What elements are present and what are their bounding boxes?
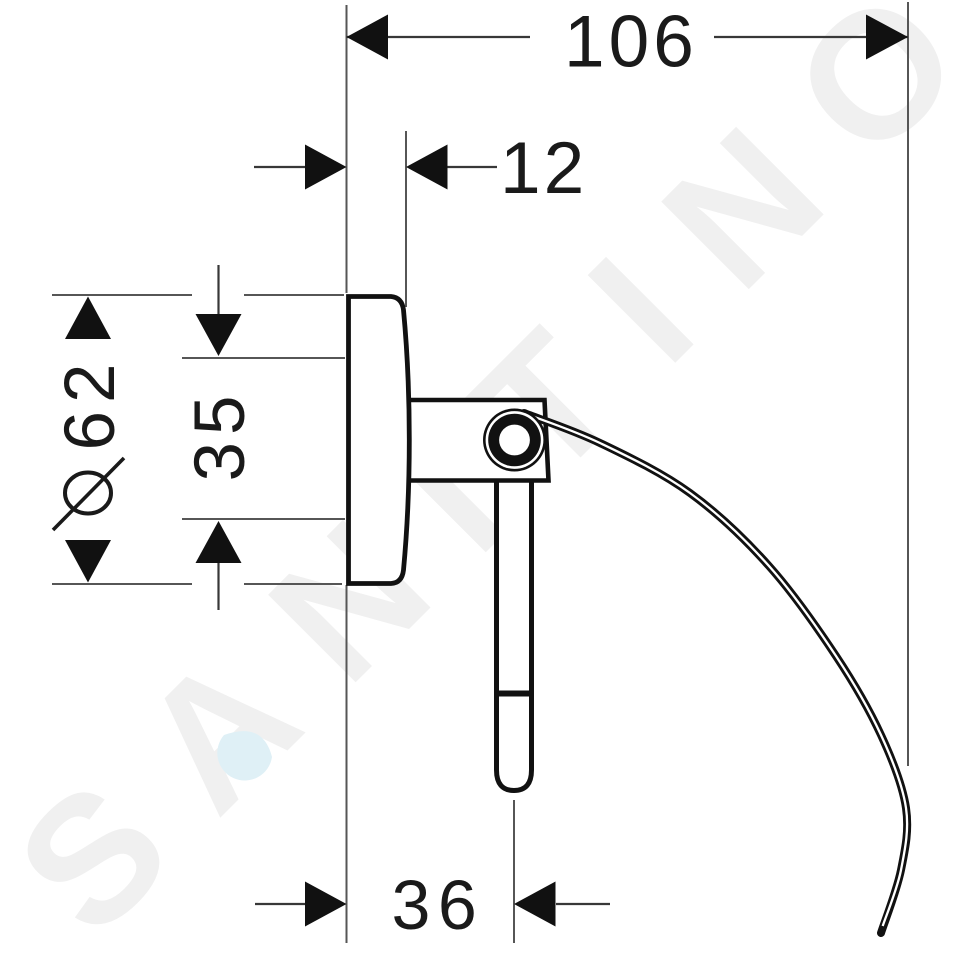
arrow 62 up [65, 297, 111, 340]
pivot hole [499, 425, 530, 456]
pivot white ring [486, 411, 544, 469]
svg-text:35: 35 [181, 389, 260, 482]
extension line 12 right x=406 [405, 131, 407, 307]
pivot donut [488, 414, 541, 467]
diameter symbol [53, 458, 124, 530]
arrow 12 left [305, 145, 347, 190]
svg-text:36: 36 [392, 866, 485, 944]
spring wire [524, 413, 907, 933]
roll holder rod [497, 478, 532, 791]
extension line left (wall plane x=346) top [346, 5, 348, 293]
arrow 35 down [196, 314, 242, 356]
extension line left bottom continuation [346, 585, 348, 943]
dimension 12 line [254, 166, 306, 168]
watermark drop [217, 731, 272, 780]
bracket arm [404, 400, 549, 481]
extension line right x=908 [907, 2, 909, 766]
extension line dia62 bottom y=584 [52, 583, 192, 585]
arrow 35 up [196, 521, 242, 563]
dimension 36 line [255, 903, 306, 905]
svg-text:62: 62 [51, 356, 130, 451]
arrow 62 down [65, 540, 111, 583]
svg-text:106: 106 [564, 2, 698, 83]
extension line 35 bottom y=519 [182, 518, 345, 520]
extension line rod center x=514 [513, 800, 515, 943]
rod joint line [494, 691, 534, 697]
pivot outer ring [483, 409, 546, 472]
arrow 106 left [347, 15, 389, 60]
arrow 106 right [866, 15, 908, 60]
svg-text:12: 12 [500, 128, 587, 209]
arrow 12 right [406, 145, 448, 190]
extension line dia62 top y=295 [52, 294, 192, 296]
arrow 36 left [305, 882, 347, 927]
dimension 35 leader lines [217, 265, 219, 316]
spring wire white stripe [524, 413, 907, 926]
wall plate [349, 297, 410, 584]
dimension 106 line [347, 36, 531, 38]
extension line 35 top y=358 [182, 357, 345, 359]
arrow 36 right [514, 882, 556, 927]
